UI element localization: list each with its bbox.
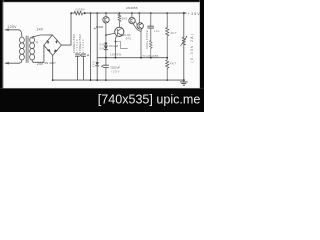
svg-text:[740x535] upic.me: [740x535] upic.me — [98, 92, 201, 107]
wire secondary top to bridge — [34, 35, 53, 37]
svg-text:2N3055: 2N3055 — [126, 6, 138, 10]
Q1 emitter wire down — [104, 23, 107, 35]
wire column x=90.6 — [90, 12, 92, 14]
wire bridge - down to bottom rail — [52, 55, 54, 80]
transistor Q3 2N3055 — [129, 17, 135, 23]
zener Z2 — [104, 46, 107, 49]
svg-text:0R1: 0R1 — [126, 36, 132, 40]
diode D3 on column — [96, 62, 99, 65]
svg-text:4K7: 4K7 — [170, 62, 176, 66]
black pillarbox left — [0, 0, 3, 112]
plus mark near column — [94, 28, 96, 30]
svg-text:10u: 10u — [154, 29, 160, 33]
svg-text:(0-30V 2A): (0-30V 2A) — [190, 34, 194, 63]
svg-text:4K7: 4K7 — [170, 31, 176, 35]
svg-text:0.1R 5W: 0.1R 5W — [76, 7, 86, 11]
wire secondary bottom to bridge left corner — [34, 45, 44, 62]
top rail — [71, 12, 186, 14]
potentiometer — [182, 37, 185, 45]
resistor R4 — [166, 28, 169, 58]
resistor R2 column x=119.5 — [119, 12, 121, 14]
svg-text:+35V: +35V — [188, 12, 201, 16]
zener stack on column x=105.9 — [105, 35, 107, 43]
watermark band — [0, 87, 204, 90]
black pillarbox top — [0, 0, 204, 2]
svg-text:2200uF: 2200uF — [110, 66, 120, 70]
Q2 emitter wire down — [116, 36, 117, 58]
bottom rail — [53, 79, 184, 81]
wire bridge + up to top rail — [61, 13, 71, 45]
svg-text:4700uF: 4700uF — [81, 39, 85, 53]
output column x=183.8 with pot — [183, 12, 185, 14]
transistor Q4 2N3055 — [137, 23, 143, 29]
svg-text:24V: 24V — [37, 27, 44, 31]
C4 plus — [101, 65, 103, 67]
Q3 base link to Q4 — [135, 21, 137, 25]
capacitor C1 — [75, 53, 79, 55]
resistor chain column x=167.2 — [166, 12, 168, 14]
capacitor C3 column x=149.5 — [150, 12, 152, 14]
transformer primary winding — [19, 30, 22, 37]
resistor R3 on same column — [149, 41, 152, 58]
AC input arrow top — [5, 29, 19, 31]
capacitor C2 — [82, 53, 86, 55]
svg-text:Tr=2N3055: Tr=2N3055 — [142, 54, 158, 58]
svg-text:5V6: 5V6 — [99, 48, 105, 51]
wire column x=97.2 with diode — [96, 12, 98, 14]
zener Z1 — [104, 43, 107, 46]
resistor R5 — [166, 58, 169, 80]
svg-text:BD140: BD140 — [121, 33, 131, 37]
svg-text:100uF/50V: 100uF/50V — [145, 30, 149, 49]
transformer core — [25, 36, 27, 63]
svg-text:5V6: 5V6 — [99, 43, 105, 46]
svg-text:220V: 220V — [8, 25, 18, 29]
bridge diode marks — [47, 40, 50, 44]
ground — [183, 80, 185, 82]
svg-text:5V6: 5V6 — [92, 61, 95, 68]
C1 plus sign — [80, 54, 82, 56]
polarity x mark — [36, 41, 38, 43]
svg-text:BD139: BD139 — [96, 25, 103, 29]
black pillarbox right — [200, 0, 204, 112]
svg-text:10K/5W: 10K/5W — [110, 52, 121, 56]
bridge rectifier diamond — [44, 35, 62, 56]
mid wire — [97, 57, 167, 59]
node after R1 — [84, 12, 86, 14]
node Q1 emitter — [105, 34, 107, 36]
svg-text:1K5: 1K5 — [122, 17, 128, 21]
svg-text:1N4148: 1N4148 — [109, 44, 119, 48]
transformer secondary winding — [32, 37, 34, 39]
svg-text:/25V: /25V — [111, 70, 119, 74]
transistor Q1 — [103, 17, 109, 23]
AC input arrow bottom — [5, 62, 19, 64]
C2 plus sign — [87, 54, 89, 56]
transistor Q2 — [115, 27, 124, 36]
emitters join wire down — [133, 24, 142, 58]
capacitor C4 bottom middle — [105, 58, 107, 65]
resistor R1 on rail — [74, 11, 83, 15]
wire to Q2 base — [106, 33, 115, 35]
output arrow right — [183, 12, 187, 14]
svg-text:1N 4007: 1N 4007 — [44, 61, 56, 65]
paper background — [0, 0, 204, 112]
